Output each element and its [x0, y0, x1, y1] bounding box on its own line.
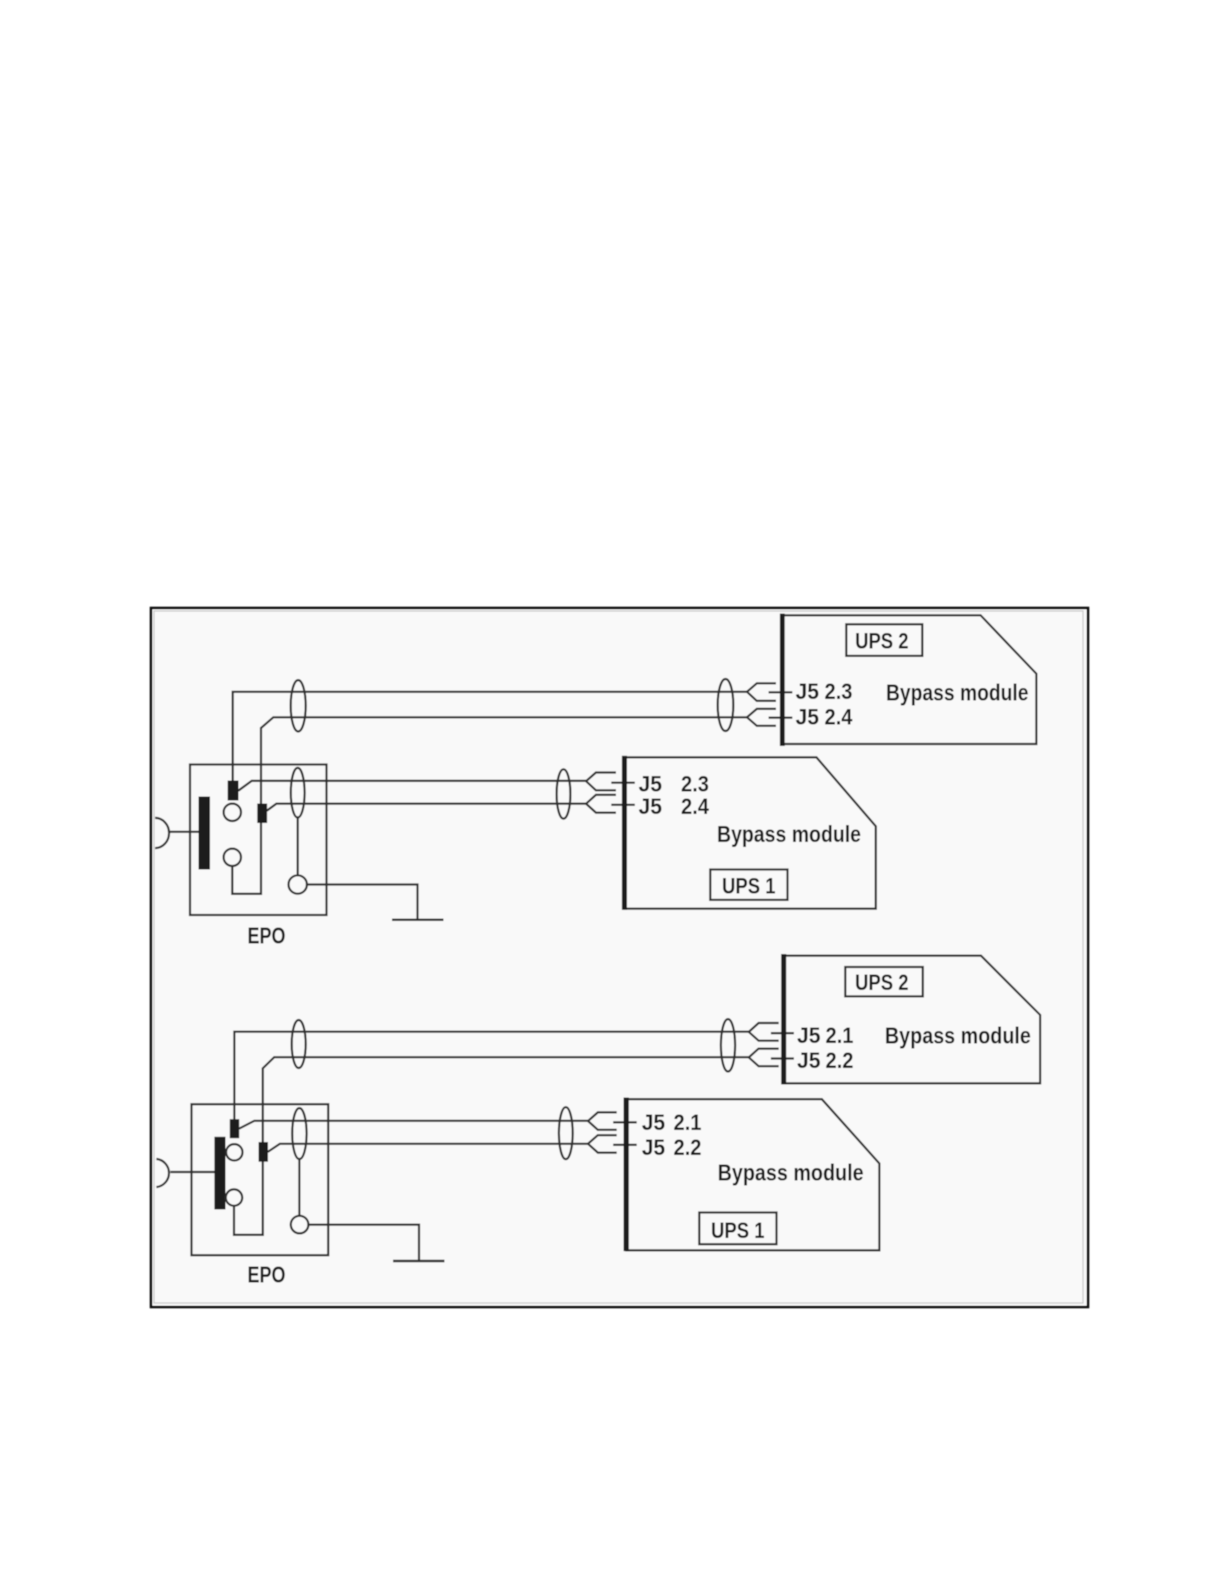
EPO contact block 1 (top)	[228, 781, 239, 801]
svg-text:EPO: EPO	[248, 923, 286, 949]
svg-text:J5: J5	[796, 679, 820, 704]
wire: button to plunger (top)	[169, 831, 199, 833]
UPS 2 label box (bottom)	[845, 967, 923, 996]
cable ferrite ellipse inside EPO (bottom)	[292, 1108, 306, 1159]
shield drain wire (bottom)	[298, 1159, 300, 1216]
UPS1 thick left edge (top)	[622, 756, 627, 910]
EPO contact circle 1 (top)	[224, 804, 241, 821]
wire: shield to ground (bottom)	[308, 1225, 419, 1261]
svg-text:2.3: 2.3	[825, 679, 853, 704]
EPO box (top)	[190, 765, 327, 916]
EPO contact block 2 (bottom)	[259, 1142, 268, 1162]
svg-text:2.1: 2.1	[674, 1110, 702, 1135]
svg-text:2.2: 2.2	[674, 1135, 702, 1160]
EPO plunger bar (bottom)	[214, 1137, 225, 1210]
wire: EPO2 contact1 to UPS1-bottom J5 2.1 fork	[239, 1121, 588, 1129]
connector fork J5 2.1 (UPS1 bottom)	[588, 1112, 617, 1129]
EPO contact circle 2 (bottom)	[226, 1189, 242, 1205]
wire: button to plunger (bottom)	[170, 1171, 215, 1173]
svg-text:2.4: 2.4	[681, 794, 710, 819]
svg-text:J5: J5	[642, 1110, 666, 1135]
svg-text:J5: J5	[796, 705, 820, 730]
connector fork J5 2.4 (UPS1 top)	[586, 795, 616, 813]
svg-text:J5: J5	[797, 1048, 821, 1073]
svg-text:2.1: 2.1	[826, 1023, 854, 1048]
cable ferrite ellipse on pair to UPS1-top	[557, 769, 571, 818]
svg-text:J5: J5	[642, 1135, 666, 1160]
inner faint frame line	[154, 611, 1083, 1303]
cable ferrite ellipse on pair to UPS2-bottom (near EPO)	[292, 1020, 306, 1068]
svg-text:UPS 2: UPS 2	[855, 629, 909, 654]
UPS2 module outline (top)	[783, 615, 1037, 744]
wire: shield to ground (top)	[307, 885, 418, 920]
outer diagram frame	[151, 608, 1088, 1307]
svg-text:2.4: 2.4	[825, 705, 854, 730]
EPO plunger bar (top)	[199, 797, 211, 870]
EPO contact block 1 (bottom)	[230, 1119, 239, 1138]
connector fork J5 2.3 (UPS1 top)	[586, 773, 616, 791]
connector pin line J5 2.1 (UPS2 bottom)	[771, 1032, 794, 1034]
UPS2 thick left edge (top)	[780, 614, 785, 746]
svg-text:J5: J5	[797, 1023, 821, 1048]
cable ferrite ellipse on pair to UPS2-bottom (near UPS2)	[721, 1019, 735, 1071]
EPO contact circle 2 (top)	[224, 849, 241, 866]
connector pin line J5 2.2 (UPS1 bottom)	[613, 1144, 637, 1146]
svg-text:UPS 2: UPS 2	[855, 970, 909, 995]
UPS1 module outline (bottom)	[626, 1099, 879, 1250]
wire: EPO1 contact1 up and right to UPS2-top J5 2.3	[233, 692, 747, 781]
connector fork J5 2.4 (UPS2 top)	[747, 709, 776, 726]
wire: EPO1 contact1 to UPS1-top J5 2.3 fork	[238, 781, 586, 791]
svg-text:2.2: 2.2	[826, 1048, 854, 1073]
EPO contact circle 1 (bottom)	[226, 1144, 242, 1160]
EPO push-button actuator (bottom)	[156, 1159, 169, 1187]
svg-text:J5: J5	[639, 772, 663, 797]
cable ferrite ellipse on pair to UPS1-bottom	[559, 1107, 573, 1159]
svg-text:2.3: 2.3	[681, 772, 709, 797]
connector pin line J5 2.3 (UPS2 top)	[769, 691, 793, 693]
connector pin line J5 2.4 (UPS1 top)	[611, 804, 635, 806]
connector fork J5 2.3 (UPS2 top)	[747, 683, 776, 701]
svg-text:Bypass module: Bypass module	[718, 1160, 864, 1186]
svg-text:Bypass module: Bypass module	[717, 821, 861, 847]
svg-text:UPS 1: UPS 1	[711, 1218, 765, 1243]
connector fork J5 2.1 (UPS2 bottom)	[749, 1023, 779, 1041]
connector pin line J5 2.4 (UPS2 top)	[769, 716, 793, 718]
UPS1 thick left edge (bottom)	[624, 1098, 629, 1252]
svg-text:Bypass module: Bypass module	[885, 1022, 1031, 1048]
wire: EPO1 contact2 to UPS1-top J5 2.4 fork	[267, 804, 586, 811]
cable ferrite ellipse on pair to UPS2-top	[718, 679, 734, 731]
cable ferrite ellipse on pair to UPS2-top (near EPO)	[291, 680, 306, 731]
cable ferrite ellipse inside EPO (top)	[291, 768, 305, 818]
wire: EPO2 contact2 to UPS1-bottom J5 2.2 fork	[268, 1144, 588, 1152]
UPS1 module outline (top)	[624, 757, 875, 908]
svg-text:Bypass module: Bypass module	[886, 680, 1029, 706]
diagram area scan tint	[153, 610, 1087, 1306]
ground symbol (top)	[392, 919, 444, 921]
connector fork J5 2.2 (UPS1 bottom)	[588, 1135, 617, 1152]
connector fork J5 2.2 (UPS2 bottom)	[749, 1049, 779, 1067]
connector pin line J5 2.3 (UPS1 top)	[611, 782, 635, 784]
EPO push-button actuator (top)	[155, 818, 169, 848]
shield terminal circle (top)	[289, 875, 307, 893]
EPO box (bottom)	[192, 1104, 329, 1255]
ground symbol (bottom)	[393, 1260, 445, 1262]
UPS 2 label box (top)	[846, 624, 922, 656]
UPS2 module outline (bottom)	[784, 956, 1040, 1084]
connector pin line J5 2.2 (UPS2 bottom)	[771, 1057, 794, 1059]
svg-text:EPO: EPO	[248, 1262, 286, 1288]
wire: UPS2-top J5 2.4 line left, down through EPO1 contact2 to lower contact circle	[232, 717, 747, 894]
shield drain wire (top)	[297, 818, 299, 876]
UPS2 thick left edge (bottom)	[781, 954, 786, 1084]
svg-text:UPS 1: UPS 1	[722, 873, 776, 898]
wire: UPS2-bottom J5 2.2 line left, down through EPO2 contact2 to lower contact circle	[234, 1057, 749, 1235]
wire: EPO2 contact1 up and right to UPS2-bottom J5 2.1	[234, 1032, 748, 1120]
svg-text:J5: J5	[639, 794, 663, 819]
EPO contact block 2 (top)	[257, 804, 267, 824]
connector pin line J5 2.1 (UPS1 bottom)	[613, 1121, 637, 1123]
shield terminal circle (bottom)	[291, 1216, 309, 1234]
UPS 1 label box (top)	[710, 870, 787, 900]
UPS 1 label box (bottom)	[699, 1213, 776, 1245]
